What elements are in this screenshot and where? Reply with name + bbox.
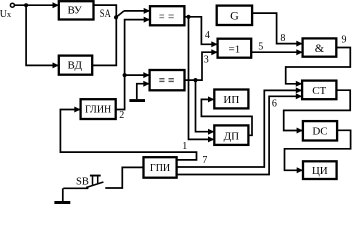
svg-text:Ux: Ux	[0, 9, 12, 20]
svg-text:SB: SB	[76, 177, 89, 188]
wire: comparator 2 output node 3 to XOR input 2	[185, 52, 217, 80]
wire: DC output wraps to ЦИ input	[285, 130, 351, 170]
ground bar below SB	[54, 201, 70, 204]
wire: ГПИ output node 1 hairpin to ГЛИН input	[60, 110, 196, 160]
block AND gate &	[303, 38, 337, 56]
svg-text:ГЛИН: ГЛИН	[85, 105, 111, 116]
wire: ГПИ output node 7 to СТ input 2	[177, 90, 302, 167]
svg-text:1: 1	[182, 141, 187, 152]
wire: СТ output wraps to DC input	[284, 90, 351, 130]
wire: ГПИ output to СТ input 3 node 6	[177, 96, 302, 174]
svg-text:DC: DC	[312, 126, 327, 138]
block ДП	[214, 125, 248, 144]
svg-text:=1: =1	[229, 44, 241, 56]
block ВУ (input amplifier)	[59, 1, 94, 19]
svg-text:2: 2	[119, 110, 124, 121]
svg-text:ЦИ: ЦИ	[312, 165, 328, 177]
block comparator U2 (==) bottom	[150, 70, 185, 90]
wire: input branch down to ВД	[26, 5, 58, 65]
wire: ВУ output to switch SA	[94, 5, 117, 17]
block ГПИ (pulse generator)	[144, 157, 177, 178]
wire: ground to comparator 2 input 2	[137, 84, 149, 99]
svg-text:9: 9	[342, 34, 347, 45]
ground stem below SB	[62, 188, 64, 201]
svg-text:6: 6	[272, 99, 277, 110]
wire: SB right contact to ГПИ input	[105, 167, 143, 188]
wire: ДП output wraps to ИП input	[201, 99, 252, 135]
push button SB actuator cap	[90, 175, 101, 177]
svg-text:ДП: ДП	[224, 130, 240, 142]
block ВД (input divider)	[59, 56, 92, 75]
switch SA blade	[116, 11, 124, 18]
wire: comparator 2 output down to ДП input 1	[196, 80, 214, 132]
push button SB actuator legs	[92, 177, 94, 185]
ground bar near comparator 2	[129, 99, 145, 102]
svg-text:8: 8	[280, 33, 285, 44]
wire: ramp bus from ГЛИН output to comparator 1 input 2	[116, 20, 149, 110]
junction: input node	[24, 3, 28, 7]
svg-text:4: 4	[205, 30, 210, 41]
wire: SA to comparator 1 input 1	[124, 10, 149, 12]
block DC (decoder)	[303, 121, 337, 140]
block ГЛИН (ramp generator)	[81, 99, 116, 119]
svg-text:5: 5	[258, 41, 263, 52]
svg-text:ВД: ВД	[68, 59, 83, 71]
svg-text:7: 7	[202, 155, 207, 166]
svg-text:SA: SA	[100, 8, 112, 20]
block СТ (counter)	[302, 81, 336, 100]
wire: input terminal to ВУ	[14, 4, 57, 6]
svg-text:3: 3	[204, 55, 209, 66]
block ИП (measuring device)	[214, 90, 248, 109]
svg-text:&: &	[315, 41, 325, 55]
wire: ВД output up to switch SA pole	[92, 17, 116, 65]
wire: XOR output node 5 to AND input 2	[251, 51, 301, 53]
svg-text:ГПИ: ГПИ	[150, 163, 170, 174]
svg-text:ИП: ИП	[223, 94, 239, 106]
block G (clock generator)	[217, 6, 252, 25]
svg-text:G: G	[230, 9, 239, 23]
switch SA pole dot	[114, 15, 118, 19]
input terminal circle Ux	[10, 3, 14, 7]
svg-text:СТ: СТ	[312, 85, 326, 97]
junction: comparator 2 output	[193, 78, 197, 82]
wire: G output node 8 to AND input 1	[252, 13, 302, 43]
push button SB blade	[86, 182, 103, 188]
block XOR =1	[218, 39, 252, 58]
wire: ramp to comparator 2 input 1	[125, 74, 149, 76]
wire: AND output node 9 wraps to СТ input 1	[286, 48, 351, 84]
wire: comparator 1 output node 4 to XOR input 1	[184, 17, 216, 45]
junction: comparator 1 output	[186, 15, 190, 19]
block comparator U1 (==) top	[150, 6, 184, 25]
block ЦИ (digital indicator)	[303, 161, 337, 179]
svg-text:ВУ: ВУ	[68, 5, 82, 17]
wire: push button SB left contact from ground	[63, 187, 88, 189]
wire: comparator 1 output down to ДП input 2	[189, 17, 214, 140]
junction: ramp to comparator 2	[123, 73, 127, 77]
